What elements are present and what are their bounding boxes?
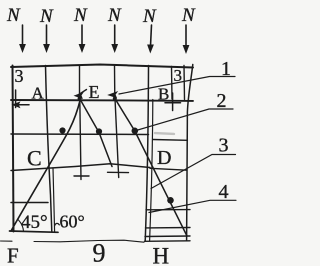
svg-text:N: N [73,5,88,26]
svg-text:F: F [7,244,19,266]
svg-text:H: H [153,244,170,266]
svg-text:3: 3 [174,66,183,85]
svg-text:N: N [181,5,196,26]
svg-text:E: E [89,82,100,102]
svg-text:4: 4 [219,181,229,203]
svg-text:60°: 60° [60,212,85,232]
svg-text:N: N [107,5,122,26]
svg-text:C: C [27,146,42,171]
svg-text:45°: 45° [21,212,48,233]
svg-text:A: A [32,84,45,103]
svg-text:N: N [6,5,21,26]
svg-text:D: D [157,147,171,169]
svg-text:3: 3 [219,135,229,157]
svg-text:1: 1 [221,58,231,80]
svg-text:N: N [142,6,157,27]
svg-text:N: N [39,6,54,27]
svg-text:3: 3 [15,66,24,86]
svg-text:2: 2 [217,90,227,112]
svg-text:9: 9 [93,239,106,266]
svg-text:B: B [158,84,169,103]
